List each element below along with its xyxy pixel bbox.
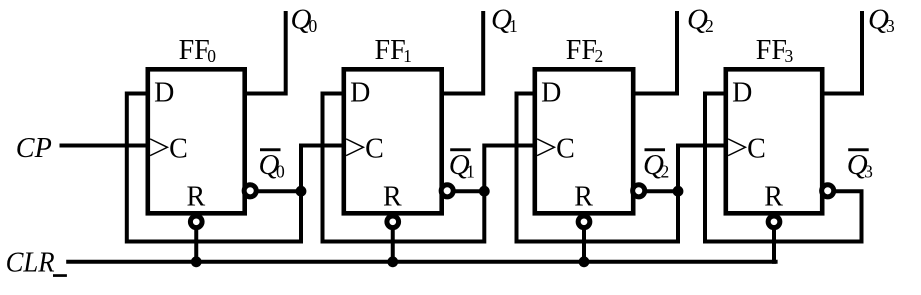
svg-text:FF0: FF0 [179, 35, 217, 66]
svg-text:Q0: Q0 [291, 4, 318, 36]
svg-text:CLR: CLR [6, 248, 55, 279]
FF3 Qbar inversion bubble [822, 185, 834, 197]
flip-flop FF2 box outline [535, 69, 633, 213]
junction FF2 R on CLR bus [579, 256, 590, 267]
wire FF0 Q output to riser and up to Q0 [245, 13, 286, 94]
svg-text:Q3: Q3 [868, 4, 895, 36]
wire node QB2 up to FF3 pin C [678, 146, 726, 192]
svg-text:Q2: Q2 [687, 4, 714, 36]
svg-text:FF1: FF1 [375, 35, 412, 66]
junction FF0 R on CLR bus [191, 256, 202, 267]
wire FF3 Q output to riser and up to Q3 [823, 13, 863, 94]
FF1 clock edge triangle [346, 139, 363, 156]
wire node QB1 feedback: down, left under FF1, up, into pin D [323, 94, 485, 242]
svg-text:Q0: Q0 [259, 149, 285, 181]
wire node QB0 feedback: down, left under FF0, up, into pin D [127, 94, 301, 242]
overline of Qbar0 [260, 148, 281, 151]
wire node QB1 up to FF2 pin C [484, 146, 534, 192]
overline of Qbar2 [645, 148, 666, 151]
wire FF0 pin R down to CLR bus [194, 214, 198, 262]
FF3 clock edge triangle [728, 139, 745, 156]
FF1 Qbar inversion bubble [441, 185, 453, 197]
FF1 R inversion bubble [387, 216, 399, 228]
svg-text:C: C [747, 133, 766, 164]
svg-text:C: C [169, 133, 188, 164]
wire FF2 Q output to riser and up to Q2 [634, 13, 678, 94]
wire FF2 Qbar bubble to node QB2 [640, 189, 679, 193]
FF0 Qbar inversion bubble [244, 185, 256, 197]
svg-text:Q3: Q3 [847, 149, 873, 181]
svg-text:FF3: FF3 [756, 35, 794, 66]
FF3 R inversion bubble [768, 216, 780, 228]
junction node QB2 [673, 186, 684, 197]
junction node QB1 [479, 186, 490, 197]
svg-text:Q2: Q2 [643, 149, 669, 181]
FF0 R inversion bubble [190, 216, 202, 228]
junction FF1 R on CLR bus [387, 256, 398, 267]
svg-text:R: R [764, 182, 783, 213]
svg-text:D: D [732, 78, 752, 109]
svg-text:CP: CP [16, 133, 52, 164]
wire FF1 Qbar bubble to node QB1 [448, 189, 484, 193]
FF2 R inversion bubble [578, 216, 590, 228]
svg-text:D: D [350, 78, 370, 109]
flip-flop FF1 box outline [344, 69, 442, 213]
wire CLR bus [68, 260, 775, 264]
wire FF3 Qbar feedback: right, down, left under FF3, up, into pin D [705, 94, 862, 242]
FF2 Qbar inversion bubble [633, 185, 645, 197]
svg-text:Q1: Q1 [449, 149, 475, 181]
wire CP to FF0 pin C [62, 144, 148, 148]
wire node QB2 feedback: down, left under FF2, up, into pin D [517, 94, 679, 242]
flip-flop FF3 box outline [726, 69, 822, 213]
svg-text:D: D [541, 78, 561, 109]
overline of Qbar1 [450, 148, 471, 151]
svg-text:R: R [574, 182, 593, 213]
svg-text:D: D [154, 78, 174, 109]
svg-text:C: C [556, 133, 575, 164]
flip-flop FF0 box outline [148, 69, 245, 213]
FF0 clock edge triangle [150, 139, 167, 156]
wire FF3 pin R down to CLR bus [772, 214, 776, 262]
svg-text:R: R [383, 182, 402, 213]
svg-text:Q1: Q1 [491, 4, 518, 36]
wire FF0 Qbar bubble to node QB0 [251, 189, 301, 193]
wire FF2 pin R down to CLR bus [582, 214, 586, 262]
svg-text:FF2: FF2 [566, 35, 603, 66]
wire node QB0 up to FF1 pin C [301, 146, 344, 192]
wire FF1 pin R down to CLR bus [391, 214, 395, 262]
wire FF1 Q output to riser and up to Q1 [442, 13, 483, 94]
junction node QB0 [296, 186, 307, 197]
svg-text:C: C [365, 133, 384, 164]
svg-text:R: R [187, 182, 206, 213]
overline of Qbar3 [848, 148, 869, 151]
FF2 clock edge triangle [537, 139, 554, 156]
